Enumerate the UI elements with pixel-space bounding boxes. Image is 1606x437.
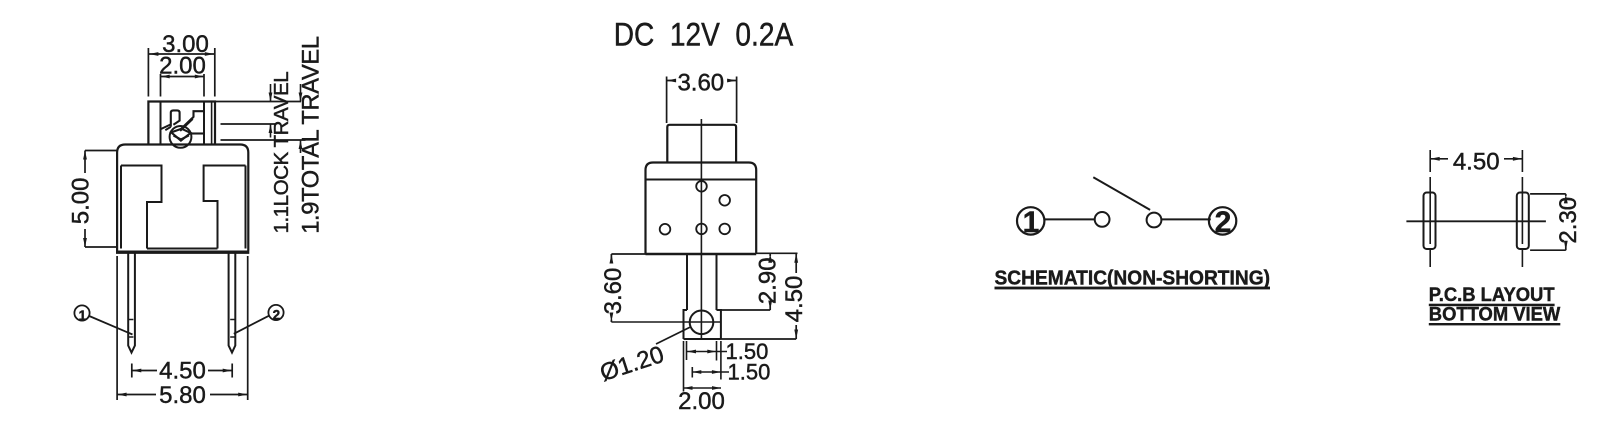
dimension 3.60 left <box>600 254 646 322</box>
pin 2 (right terminal) <box>229 254 236 353</box>
centerline <box>700 119 702 339</box>
rating label DC 12V 0.2A <box>614 17 794 53</box>
pad left <box>1424 193 1436 250</box>
svg-text:2: 2 <box>273 308 281 323</box>
pads axis line <box>1406 220 1546 222</box>
svg-text:2: 2 <box>1215 206 1232 239</box>
svg-text:1.9TOTAL TRAVEL: 1.9TOTAL TRAVEL <box>299 36 325 234</box>
pcb caption line 1 <box>1429 284 1555 306</box>
pad centerline left <box>1429 150 1431 267</box>
wire from terminal 1 <box>1045 218 1095 220</box>
hole center reference line <box>611 321 721 323</box>
svg-text:2.30: 2.30 <box>1555 197 1582 244</box>
dimension 3.00 label <box>162 31 209 58</box>
svg-text:4.50: 4.50 <box>1453 149 1500 176</box>
body interior right recess <box>204 166 246 249</box>
svg-text:4.50: 4.50 <box>159 358 206 385</box>
svg-text:5.00: 5.00 <box>68 178 95 225</box>
lock cam detail <box>161 110 204 147</box>
stem hole <box>690 311 714 335</box>
svg-text:DC 12V 0.2A: DC 12V 0.2A <box>614 17 794 53</box>
body interior bottom line <box>147 248 218 250</box>
plunger housing <box>148 102 215 145</box>
svg-text:3.60: 3.60 <box>600 268 627 315</box>
svg-text:1.1LOCK TRAVEL: 1.1LOCK TRAVEL <box>270 72 293 234</box>
switch body outline <box>116 145 249 253</box>
svg-text:Ø1.20: Ø1.20 <box>597 341 668 387</box>
travel reference line top <box>215 101 301 103</box>
dimension 2.90 <box>721 253 798 310</box>
hole diameter label <box>597 327 691 387</box>
dimension 2.00 bottom <box>678 341 725 415</box>
total travel arrows <box>299 84 303 153</box>
svg-text:2.00: 2.00 <box>678 388 725 415</box>
dimension 1.50 lower <box>692 341 770 385</box>
svg-text:1: 1 <box>79 308 87 323</box>
dimension 2.30 <box>1530 194 1582 250</box>
svg-text:SCHEMATIC(NON-SHORTING): SCHEMATIC(NON-SHORTING) <box>995 268 1271 290</box>
pcb caption line 2 <box>1429 304 1561 326</box>
stem <box>687 254 717 310</box>
travel reference line total <box>221 139 306 141</box>
svg-text:1.50: 1.50 <box>728 360 771 385</box>
dimension 4.50 pcb <box>1430 149 1522 176</box>
dimension 3.60 top <box>667 70 737 124</box>
body interior left recess <box>121 166 162 249</box>
pin 1 (left terminal) <box>128 254 135 353</box>
dimension 5.80 (body width) <box>117 256 248 409</box>
terminal 2 circle <box>1209 206 1236 239</box>
schematic caption <box>995 268 1271 290</box>
dimension 4.50 right <box>721 253 808 339</box>
contact node right <box>1147 213 1162 228</box>
pad centerline right <box>1521 150 1523 267</box>
terminal callout 2 <box>234 305 284 334</box>
lock travel arrows <box>269 84 273 138</box>
svg-text:3.60: 3.60 <box>677 70 724 97</box>
dimension 2.00 line <box>161 74 205 97</box>
svg-text:2.90: 2.90 <box>755 257 782 304</box>
switch body side <box>646 163 757 255</box>
dimension 1.50 upper <box>687 339 769 364</box>
terminal 1 circle <box>1017 206 1044 239</box>
svg-text:5.80: 5.80 <box>159 382 206 409</box>
dimension 3.00 extension lines <box>148 48 214 97</box>
svg-text:4.50: 4.50 <box>781 276 808 323</box>
contact node left <box>1095 212 1110 227</box>
dimension 4.50 (pin pitch) <box>132 358 232 385</box>
svg-text:P.C.B LAYOUT: P.C.B LAYOUT <box>1429 284 1555 306</box>
switch arm <box>1093 177 1150 210</box>
dimension 2.00 label <box>159 53 206 80</box>
svg-text:BOTTOM VIEW: BOTTOM VIEW <box>1429 304 1561 326</box>
label 1.1LOCK TRAVEL <box>270 72 293 234</box>
pad right <box>1517 193 1529 250</box>
dimension 3.00 line <box>149 52 214 56</box>
dimension 5.00 <box>68 151 119 248</box>
terminal callout 1 <box>74 305 132 334</box>
wire to terminal 2 <box>1162 218 1211 220</box>
button cap <box>667 125 736 163</box>
label 1.9TOTAL TRAVEL <box>299 36 325 234</box>
stem foot <box>684 310 721 339</box>
travel reference line lock <box>221 123 277 125</box>
svg-text:1: 1 <box>1023 206 1040 239</box>
mounting holes <box>660 181 730 235</box>
